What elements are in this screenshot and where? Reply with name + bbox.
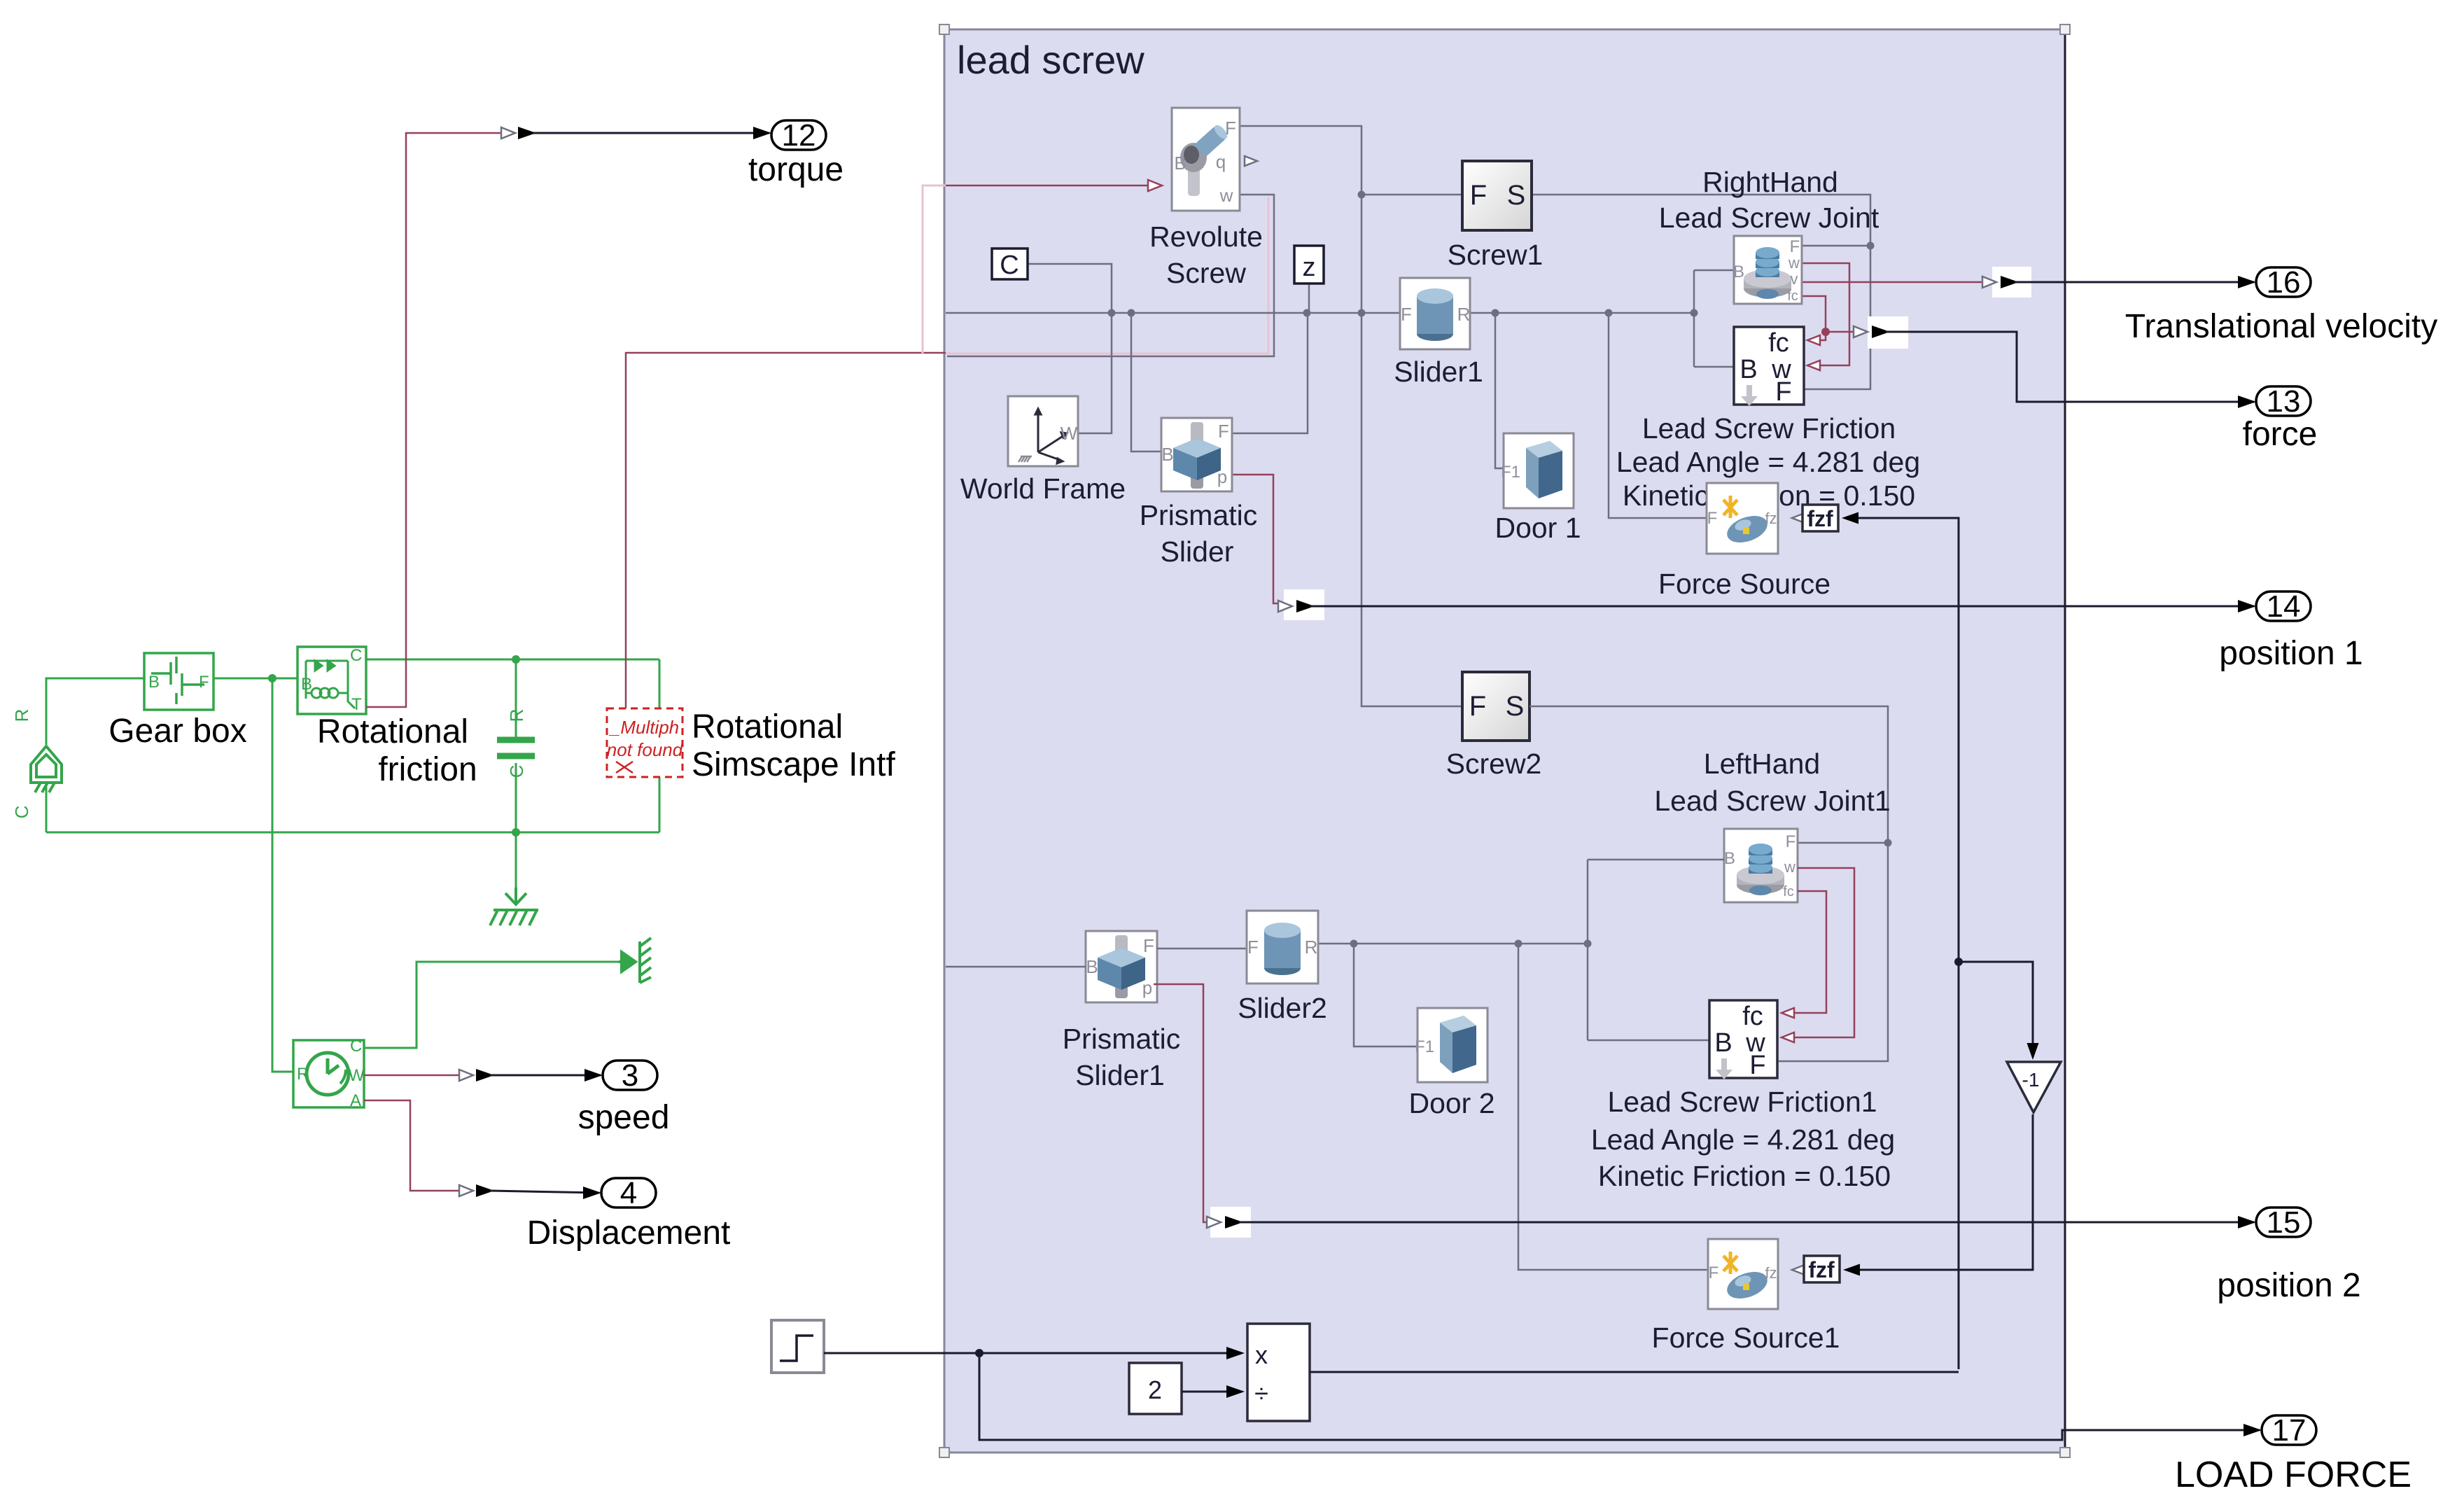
svg-text:position 2: position 2 bbox=[2217, 1267, 2360, 1304]
svg-text:B: B bbox=[1161, 444, 1173, 465]
svg-text:F: F bbox=[1247, 937, 1259, 958]
block: Constant 2 bbox=[1129, 1363, 1182, 1414]
svg-text:Lead Screw Friction: Lead Screw Friction bbox=[1642, 412, 1896, 444]
svg-text:17: 17 bbox=[2272, 1413, 2306, 1448]
svg-text:fc: fc bbox=[1742, 1002, 1763, 1031]
wire: product output to fzf bbox=[1858, 518, 1959, 1369]
svg-text:LOAD FORCE: LOAD FORCE bbox=[2175, 1455, 2411, 1495]
block: Slider2 bbox=[1247, 911, 1318, 983]
block: Lead Screw Joint bbox=[1734, 236, 1802, 304]
svg-text:Prismatic: Prismatic bbox=[1140, 499, 1258, 531]
svg-text:Revolute: Revolute bbox=[1149, 220, 1263, 253]
output port 17 bbox=[2262, 1415, 2316, 1445]
ground (mechanical rotational reference) bbox=[490, 888, 538, 925]
block: Force Source1 bbox=[1708, 1239, 1778, 1309]
svg-text:F: F bbox=[1790, 237, 1800, 256]
block: Product (divide) bbox=[1247, 1324, 1310, 1421]
block: Lead Screw Friction bbox=[1734, 327, 1804, 405]
wire: gearbox F to rotational friction B bbox=[213, 678, 297, 680]
block: Screw2 (subsystem) bbox=[1462, 672, 1529, 741]
svg-text:Door 2: Door 2 bbox=[1408, 1087, 1494, 1119]
svg-text:F: F bbox=[1470, 180, 1487, 211]
output port 3 bbox=[603, 1060, 657, 1090]
wire: branch to Screw1 F bbox=[1361, 194, 1462, 196]
fzf tag bbox=[1792, 513, 1805, 523]
svg-text:4: 4 bbox=[620, 1176, 637, 1210]
wire: maroon v output to translational velocity bbox=[1802, 281, 1987, 283]
block: Ideal rotational motion sensor bbox=[293, 1040, 364, 1107]
svg-text:Lead Angle = 4.281 deg: Lead Angle = 4.281 deg bbox=[1591, 1123, 1895, 1156]
wire: green bottom rail bbox=[46, 832, 659, 834]
svg-text:Translational velocity: Translational velocity bbox=[2125, 308, 2437, 345]
svg-text:Rotational: Rotational bbox=[692, 708, 843, 745]
svg-text:fc: fc bbox=[1768, 328, 1789, 358]
svg-text:12: 12 bbox=[782, 118, 816, 153]
svg-text:Lead Screw Friction1: Lead Screw Friction1 bbox=[1607, 1086, 1877, 1118]
output port 16 bbox=[2256, 267, 2311, 297]
svg-text:F: F bbox=[1218, 421, 1229, 442]
wire: step output bbox=[824, 1352, 1236, 1354]
wire: lower rail bbox=[1318, 943, 1588, 945]
wire: pale pink connector outside box bbox=[923, 185, 946, 354]
svg-text:friction: friction bbox=[378, 751, 477, 788]
svg-text:W: W bbox=[349, 1066, 365, 1085]
svg-text:w: w bbox=[1788, 254, 1800, 272]
svg-text:World Frame: World Frame bbox=[960, 472, 1126, 505]
gain -1 bbox=[1959, 962, 2033, 1057]
wire: green from home up to gearbox bbox=[46, 678, 144, 745]
svg-text:2: 2 bbox=[1148, 1375, 1162, 1404]
wire: green top rail bbox=[358, 659, 659, 661]
svg-text:Screw: Screw bbox=[1166, 257, 1246, 289]
block: Lead Screw Friction1 bbox=[1709, 1000, 1777, 1078]
svg-text:R: R bbox=[506, 709, 527, 722]
svg-text:F: F bbox=[1401, 304, 1412, 325]
wire: constant to divide bbox=[1182, 1391, 1236, 1393]
svg-text:C: C bbox=[350, 646, 362, 665]
svg-text:Force Source1: Force Source1 bbox=[1652, 1322, 1840, 1354]
block: Door 2 bbox=[1417, 1008, 1487, 1082]
svg-text:R: R bbox=[1305, 937, 1318, 958]
svg-text:Screw2: Screw2 bbox=[1446, 748, 1542, 780]
svg-text:F: F bbox=[1786, 832, 1796, 851]
svg-text:fz: fz bbox=[1765, 510, 1777, 527]
wire: gain output to fzf1 bbox=[1860, 1114, 2033, 1270]
wire: maroon fc loop with junction bbox=[1802, 296, 1826, 340]
svg-text:C: C bbox=[506, 765, 527, 778]
svg-text:15: 15 bbox=[2267, 1205, 2301, 1240]
svg-text:w: w bbox=[1784, 858, 1795, 876]
svg-text:not found: not found bbox=[607, 739, 684, 760]
svg-text:C: C bbox=[350, 1037, 362, 1056]
svg-text:LeftHand: LeftHand bbox=[1704, 748, 1820, 780]
wire: green vertical down to red block bbox=[659, 659, 661, 708]
svg-text:B: B bbox=[1174, 153, 1186, 174]
svg-text:Slider1: Slider1 bbox=[1394, 356, 1483, 388]
wire: rail right of Slider1 bbox=[1470, 312, 1694, 314]
svg-text:Lead Screw Joint1: Lead Screw Joint1 bbox=[1654, 785, 1890, 817]
wire: friction C to top rail bbox=[357, 659, 359, 663]
svg-text:Prismatic: Prismatic bbox=[1063, 1023, 1181, 1055]
block: Door 1 bbox=[1504, 433, 1574, 508]
wire: revolute F output long vertical to Screw2 bbox=[1240, 126, 1462, 706]
block: Revolute Screw bbox=[1172, 108, 1240, 211]
wire: junction down to sensor R bbox=[272, 678, 293, 1072]
wire: maroon LSJ1 fc to friction1 bbox=[1794, 891, 1826, 1013]
svg-text:R: R bbox=[1457, 304, 1471, 325]
box right edge dark line bbox=[2064, 29, 2066, 1452]
svg-text:Force Source: Force Source bbox=[1658, 568, 1830, 600]
svg-text:B: B bbox=[1086, 956, 1098, 977]
svg-text:F: F bbox=[1469, 691, 1486, 722]
resize handle bottom-right bbox=[2060, 1448, 2070, 1457]
resize handle top-right bbox=[2060, 24, 2070, 34]
wire: pink+gray w pair inside box bbox=[946, 197, 1268, 353]
svg-text:fzf: fzf bbox=[1808, 1257, 1835, 1282]
wire: Force Source1 F connection bbox=[1518, 944, 1708, 1270]
wire: sensor C to clamp bbox=[364, 962, 619, 1048]
block: Prismatic Slider bbox=[1161, 418, 1232, 491]
wire: main base rail bbox=[946, 312, 1400, 314]
wire: C block to World Frame W bbox=[1028, 264, 1112, 433]
wire: maroon LSJ1 w to friction1 bbox=[1794, 868, 1854, 1037]
svg-text:F: F bbox=[199, 673, 209, 692]
svg-text:force: force bbox=[2243, 416, 2318, 453]
resize handle bottom-left bbox=[939, 1448, 949, 1457]
svg-text:fzf: fzf bbox=[1807, 506, 1833, 531]
wire: rail down to prismatic slider B bbox=[1131, 313, 1161, 451]
svg-text:T: T bbox=[351, 695, 362, 714]
svg-text:13: 13 bbox=[2267, 384, 2301, 419]
svg-text:w: w bbox=[1219, 185, 1233, 206]
wire: force signal out bbox=[1886, 332, 2254, 402]
svg-text:Screw1: Screw1 bbox=[1448, 239, 1543, 271]
svg-text:p: p bbox=[1217, 466, 1227, 487]
wire: step to load force out bbox=[979, 1353, 2260, 1440]
svg-text:Gear box: Gear box bbox=[108, 713, 246, 750]
block: Lead Screw Joint1 bbox=[1724, 829, 1798, 902]
rotational spring (capacitor symbol) bbox=[515, 659, 517, 737]
output port 15 bbox=[2256, 1207, 2311, 1237]
svg-text:_Multiph: _Multiph bbox=[608, 717, 679, 738]
output port 12 bbox=[771, 120, 826, 150]
wire: position 1 signal bbox=[1222, 475, 1282, 603]
svg-text:F: F bbox=[1143, 935, 1154, 956]
wire: torque actuation into revolute screw bbox=[946, 185, 1152, 187]
wire: torque signal bbox=[533, 132, 769, 134]
block: Step bbox=[771, 1320, 824, 1373]
svg-text:16: 16 bbox=[2267, 265, 2301, 300]
svg-text:F: F bbox=[1225, 118, 1236, 139]
svg-text:B: B bbox=[1714, 1028, 1732, 1058]
wire: sensor A to displacement port bbox=[364, 1100, 463, 1191]
svg-text:Simscape Intf: Simscape Intf bbox=[692, 746, 895, 783]
svg-text:F: F bbox=[1775, 377, 1791, 407]
output port 4 bbox=[601, 1178, 656, 1207]
svg-text:speed: speed bbox=[578, 1099, 670, 1136]
wire: vertical to Lead Screw Friction F bbox=[1804, 246, 1870, 389]
wire: prismatic slider F up to rail bbox=[1232, 313, 1308, 433]
wire: Prismatic Slider1 F to Slider2 F bbox=[1157, 948, 1247, 950]
svg-text:z: z bbox=[1303, 253, 1316, 282]
output port 13 bbox=[2256, 386, 2311, 416]
svg-text:q: q bbox=[1216, 151, 1226, 172]
svg-text:Slider1: Slider1 bbox=[1075, 1059, 1165, 1091]
svg-text:Lead Screw Joint: Lead Screw Joint bbox=[1659, 202, 1879, 234]
svg-text:F1: F1 bbox=[1501, 463, 1520, 482]
clamp symbol (rotational hard stop) bbox=[619, 938, 651, 983]
svg-text:v: v bbox=[1791, 270, 1798, 288]
wire: sensor W to speed port bbox=[364, 1074, 463, 1077]
svg-text:RightHand: RightHand bbox=[1702, 166, 1838, 198]
svg-text:x: x bbox=[1255, 1340, 1268, 1369]
output port 14 bbox=[2256, 591, 2311, 621]
svg-text:R: R bbox=[11, 709, 32, 722]
svg-text:Door 1: Door 1 bbox=[1494, 512, 1581, 544]
svg-text:S: S bbox=[1507, 180, 1526, 211]
wire: capacitor to ground bbox=[515, 832, 517, 897]
svg-text:W: W bbox=[1060, 423, 1078, 444]
svg-text:F: F bbox=[1749, 1051, 1765, 1080]
wire: red block bottom to rail bbox=[659, 777, 661, 832]
svg-text:-1: -1 bbox=[2022, 1069, 2040, 1091]
svg-text:F: F bbox=[1709, 1263, 1719, 1282]
svg-text:lead screw: lead screw bbox=[957, 38, 1144, 82]
svg-text:B: B bbox=[1724, 849, 1735, 868]
svg-text:position 1: position 1 bbox=[2219, 635, 2362, 672]
svg-text:3: 3 bbox=[622, 1058, 638, 1093]
svg-text:B: B bbox=[301, 675, 312, 694]
block: Force Source bbox=[1707, 483, 1778, 554]
svg-text:fc: fc bbox=[1787, 288, 1798, 304]
svg-text:÷: ÷ bbox=[1254, 1379, 1268, 1408]
wire: maroon w-line from red block up to box edge bbox=[626, 353, 946, 708]
svg-text:fc: fc bbox=[1783, 884, 1794, 899]
block: Prismatic Slider1 bbox=[1086, 931, 1157, 1002]
fzf1 tag bbox=[1792, 1265, 1805, 1275]
subsystem box: lead screw bbox=[944, 29, 2065, 1452]
svg-text:A: A bbox=[350, 1091, 361, 1110]
wire: tee to Lead Screw Joint B and Friction B bbox=[1693, 270, 1695, 367]
home symbol (rotational reference) bbox=[31, 746, 62, 792]
block: Rotational Simscape Intf (missing library link) bbox=[607, 708, 682, 777]
connection tag z bbox=[1294, 246, 1324, 283]
wire: rail up to LSJ1 B and down to Friction1 B bbox=[1587, 860, 1589, 1040]
wire: Screw2 S to Lead Screw Joint1 F bbox=[1529, 706, 1888, 843]
block: Rotational friction bbox=[297, 647, 366, 714]
wire: product output bbox=[1310, 1371, 1959, 1373]
wire: box edge to Prismatic Slider1 B bbox=[946, 966, 1086, 968]
svg-text:Kinetic Friction = 0.150: Kinetic Friction = 0.150 bbox=[1598, 1160, 1891, 1192]
wire: translational velocity signal out bbox=[2015, 281, 2254, 283]
wire: vertical down to Friction1 F bbox=[1777, 843, 1888, 1061]
resize handle top-left bbox=[939, 24, 949, 34]
svg-text:R: R bbox=[297, 1065, 309, 1084]
block: World Frame bbox=[1008, 396, 1078, 466]
block: Gear box bbox=[144, 653, 213, 710]
wire: maroon Lead Screw Joint w to friction w bbox=[1802, 263, 1849, 365]
wire: Door 1 connection bbox=[1495, 313, 1504, 468]
svg-text:F: F bbox=[1707, 509, 1718, 528]
svg-text:Lead Angle = 4.281 deg: Lead Angle = 4.281 deg bbox=[1616, 446, 1920, 478]
wire: Screw1 S to Lead Screw Joint F bbox=[1532, 195, 1870, 246]
wire: Door 2 connection bbox=[1354, 944, 1417, 1046]
wire: home bottom to rail bbox=[45, 783, 48, 832]
svg-text:fz: fz bbox=[1765, 1264, 1777, 1282]
wire: fc tap to force output bbox=[1826, 331, 1859, 333]
svg-text:14: 14 bbox=[2267, 589, 2301, 624]
wire: Force Source F connection bbox=[1609, 313, 1708, 518]
svg-text:C: C bbox=[1000, 251, 1018, 280]
svg-text:B: B bbox=[148, 673, 160, 692]
svg-text:B: B bbox=[1739, 355, 1757, 384]
svg-text:F1: F1 bbox=[1415, 1037, 1434, 1056]
block: Slider1 bbox=[1400, 278, 1470, 349]
svg-text:torque: torque bbox=[748, 151, 843, 188]
svg-text:Slider: Slider bbox=[1161, 535, 1234, 568]
svg-text:B: B bbox=[1733, 262, 1744, 281]
svg-text:Slider2: Slider2 bbox=[1238, 992, 1327, 1024]
wire: position 2 signal bbox=[1154, 984, 1212, 1222]
svg-text:p: p bbox=[1142, 977, 1152, 998]
svg-text:S: S bbox=[1506, 691, 1525, 722]
wire: z tag to rail bbox=[1308, 283, 1310, 313]
svg-text:C: C bbox=[11, 806, 32, 819]
connection tag C bbox=[992, 248, 1028, 279]
svg-text:Rotational: Rotational bbox=[317, 713, 468, 750]
wire: torque tap from friction T bbox=[366, 133, 505, 707]
svg-text:Displacement: Displacement bbox=[527, 1214, 731, 1252]
